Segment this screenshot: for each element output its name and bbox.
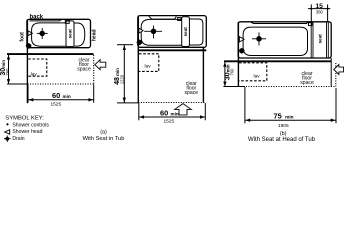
shower controls symbol T1 bbox=[37, 28, 48, 39]
clear floor space dotted boundary D3 bbox=[238, 63, 335, 87]
dimension 75 min D3 bbox=[245, 87, 336, 123]
svg-text:60 min: 60 min bbox=[52, 91, 71, 100]
svg-text:SYMBOL KEY:: SYMBOL KEY: bbox=[5, 116, 44, 122]
svg-text:(b): (b) bbox=[280, 131, 287, 137]
faucet T3 bbox=[309, 23, 312, 26]
basin T3 bbox=[243, 27, 307, 55]
basin T1 foot section bbox=[32, 23, 67, 46]
faucet T1 bbox=[65, 20, 69, 23]
svg-text:space: space bbox=[300, 80, 314, 86]
svg-text:760: 760 bbox=[230, 68, 235, 76]
right border D3 bbox=[330, 58, 332, 87]
svg-text:lav: lav bbox=[31, 71, 38, 77]
seat band T2 bbox=[182, 17, 190, 47]
approach arrow D3 (points left) bbox=[334, 65, 344, 75]
approach arrow D2 (points up) bbox=[175, 104, 192, 115]
shower head symbol T1 bbox=[28, 31, 32, 36]
dimension 30 min D1 bbox=[7, 55, 27, 85]
key shower controls bbox=[6, 123, 8, 125]
svg-text:Shower controls: Shower controls bbox=[12, 122, 49, 128]
svg-text:seat: seat bbox=[317, 34, 322, 44]
tub edge thick line D2 bbox=[138, 49, 207, 51]
svg-text:1525: 1525 bbox=[50, 101, 61, 107]
svg-text:lav: lav bbox=[145, 64, 152, 70]
drain symbol T1 bbox=[26, 43, 32, 49]
lavatory dashed box D1 bbox=[28, 59, 47, 76]
dimension 60 min D1 bbox=[28, 85, 94, 103]
approach arrow D1 (points left) bbox=[95, 60, 106, 70]
shower controls symbol T3 bbox=[252, 32, 266, 45]
seat band T3 bbox=[311, 22, 328, 58]
svg-text:1905: 1905 bbox=[278, 123, 289, 129]
drain symbol T3 bbox=[239, 48, 245, 54]
basin T1 head section bbox=[74, 23, 85, 46]
clear floor space dotted boundary D2 bbox=[138, 102, 205, 104]
clear floor space text D3 bbox=[300, 71, 314, 86]
svg-text:space: space bbox=[77, 67, 91, 73]
left border D3 bbox=[237, 22, 239, 87]
shower controls symbol T2 bbox=[144, 26, 162, 39]
svg-text:space: space bbox=[185, 90, 199, 96]
clear floor space dotted boundary D1 bbox=[28, 55, 94, 84]
basin T2 foot section bbox=[141, 19, 182, 45]
left border D2 bbox=[137, 16, 139, 103]
tub edge thick line D3 bbox=[224, 60, 331, 62]
key shower head bbox=[5, 130, 10, 135]
svg-text:With Seat in Tub: With Seat in Tub bbox=[83, 136, 125, 142]
faucet T2 bbox=[178, 18, 181, 21]
clear floor space text D1 bbox=[77, 57, 91, 72]
svg-text:1220: 1220 bbox=[120, 74, 125, 84]
svg-text:Drain: Drain bbox=[12, 136, 24, 142]
svg-text:Shower head: Shower head bbox=[12, 129, 42, 135]
tub T1 rim bbox=[27, 19, 91, 47]
svg-text:seat: seat bbox=[68, 29, 73, 39]
clear floor space text D2 bbox=[185, 81, 199, 96]
svg-text:(a): (a) bbox=[100, 129, 107, 135]
tub edge thick line D1 bbox=[7, 53, 94, 55]
svg-text:foot: foot bbox=[20, 32, 26, 42]
svg-text:75 min: 75 min bbox=[274, 112, 294, 121]
dimension 60 min D2 bbox=[139, 103, 206, 120]
dimension 15 / 380 seat width bbox=[308, 4, 330, 21]
svg-text:1525: 1525 bbox=[163, 119, 174, 125]
shower head symbol T2 bbox=[139, 28, 143, 33]
shower head symbol T3 bbox=[239, 37, 244, 42]
right border D2 bbox=[202, 47, 204, 102]
drain symbol T2 bbox=[137, 40, 143, 46]
dimension 48 min D2 bbox=[117, 45, 139, 103]
grab bar back wall T1 bbox=[30, 20, 62, 21]
wall left border bbox=[26, 19, 28, 103]
svg-text:760: 760 bbox=[5, 68, 10, 76]
basin T2 head section bbox=[189, 19, 203, 45]
tub T3 rim bbox=[238, 22, 331, 58]
grab bar back wall T2 bbox=[149, 16, 177, 19]
seat band T1 bbox=[66, 21, 74, 47]
svg-text:head: head bbox=[92, 29, 98, 41]
svg-text:seat: seat bbox=[183, 27, 188, 37]
grab bar back wall T3 bbox=[251, 22, 309, 24]
tub T2 rim bbox=[138, 16, 207, 48]
lavatory dashed box D3 bbox=[239, 63, 267, 81]
lavatory dashed box D2 bbox=[139, 54, 159, 72]
key drain bbox=[4, 136, 11, 142]
svg-text:lav: lav bbox=[254, 74, 261, 80]
svg-text:With Seat at Head of Tub: With Seat at Head of Tub bbox=[248, 137, 316, 143]
svg-text:380: 380 bbox=[316, 9, 324, 14]
dimension 30 min D3 bbox=[223, 62, 245, 87]
